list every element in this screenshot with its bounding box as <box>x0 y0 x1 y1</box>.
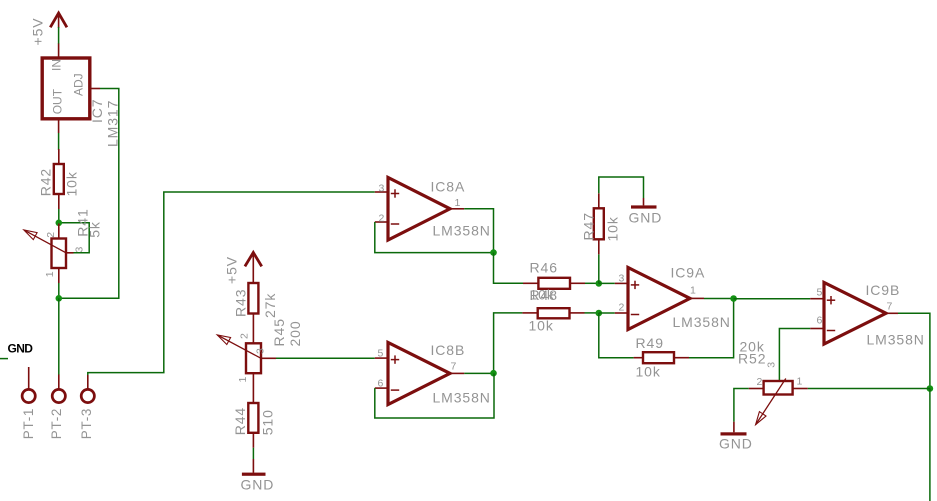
svg-text:GND: GND <box>629 210 663 226</box>
svg-text:2: 2 <box>757 376 763 388</box>
svg-text:10k: 10k <box>63 171 79 196</box>
wire IC9B output to node H <box>898 313 930 388</box>
svg-text:IC7: IC7 <box>89 99 105 124</box>
op-amp IC9B <box>810 282 925 348</box>
supply +5V symbol (top left) <box>30 13 67 46</box>
resistor R47 10k <box>581 193 621 254</box>
svg-text:200: 200 <box>287 320 303 346</box>
resistor R44 510 <box>232 403 276 448</box>
op-amp IC8A <box>375 178 491 241</box>
svg-text:IC8B: IC8B <box>431 342 466 358</box>
svg-text:1: 1 <box>455 197 461 209</box>
svg-text:5: 5 <box>378 348 384 360</box>
wire IC7 ADJ to node below R41 <box>61 89 119 299</box>
svg-text:1: 1 <box>797 376 803 388</box>
node D junction <box>596 280 603 287</box>
resistor R43 27k <box>232 283 278 343</box>
op-amp IC8B <box>375 342 491 406</box>
wire IC8B output to node G <box>464 372 493 374</box>
supply +5V symbol (middle) <box>223 253 261 285</box>
wire R45 wiper to IC8B pin5 <box>276 357 375 359</box>
svg-text:6: 6 <box>817 315 823 327</box>
wire IC8A feedback pin2 <box>375 222 494 253</box>
svg-text:GND: GND <box>8 342 34 356</box>
svg-text:R44: R44 <box>232 407 248 435</box>
pad PT-2 <box>49 375 65 440</box>
pad PT-1 <box>21 367 36 439</box>
wire node F to IC9B pin5 <box>734 298 811 300</box>
svg-text:10k: 10k <box>529 318 554 334</box>
svg-text:LM358N: LM358N <box>433 390 491 406</box>
wire node H to R52 pin1 <box>808 388 930 390</box>
wire R49 to IC9A output node F <box>689 299 734 358</box>
resistor R48 10k <box>522 287 584 334</box>
svg-text:6: 6 <box>378 378 384 390</box>
svg-text:510: 510 <box>260 409 276 435</box>
wire IC7 OUT to R42 <box>58 133 60 150</box>
node B junction <box>56 295 63 302</box>
svg-text:3: 3 <box>619 273 625 285</box>
wire +5V to IC7 IN <box>58 27 60 44</box>
svg-text:GND: GND <box>241 477 275 493</box>
svg-text:R47: R47 <box>581 212 597 240</box>
wire node D to IC9A pin3 <box>599 282 615 284</box>
svg-text:3: 3 <box>379 183 385 195</box>
wire node E to IC9A pin2 <box>599 312 615 314</box>
svg-text:2: 2 <box>238 333 250 339</box>
wire node B down to PT-2 <box>58 298 60 375</box>
wire R52 pin2 to ground <box>734 389 749 422</box>
wire IC9A output to node F <box>704 298 734 300</box>
ground GND (below R52) <box>719 422 753 452</box>
potentiometer R52 20k <box>738 339 808 425</box>
wire node C to R46 <box>494 253 524 284</box>
svg-text:LM358N: LM358N <box>673 314 731 330</box>
svg-text:5k: 5k <box>87 221 103 238</box>
svg-text:ADJ: ADJ <box>72 73 86 96</box>
svg-text:7: 7 <box>887 301 893 313</box>
svg-text:2: 2 <box>379 213 385 225</box>
svg-text:10k: 10k <box>605 216 621 241</box>
svg-text:PT-1: PT-1 <box>21 408 36 439</box>
wire node A to R41 wiper <box>62 223 89 253</box>
svg-text:7: 7 <box>451 361 457 373</box>
svg-text:LM358N: LM358N <box>867 332 925 348</box>
regulator IC7 LM317 <box>42 44 120 148</box>
node H junction <box>927 385 934 392</box>
svg-text:R48: R48 <box>530 287 558 303</box>
svg-text:IC9B: IC9B <box>866 282 901 298</box>
potentiometer R41 5k <box>24 208 103 283</box>
node A junction <box>56 220 63 227</box>
svg-text:2: 2 <box>619 302 625 314</box>
svg-text:3: 3 <box>255 348 267 354</box>
wire R44 to ground <box>252 448 254 459</box>
node C junction <box>490 249 497 256</box>
potentiometer R45 200 <box>217 318 303 403</box>
resistor R49 10k <box>634 335 689 380</box>
svg-text:IN: IN <box>50 59 64 71</box>
wire IC8A output to node C <box>464 209 493 253</box>
svg-text:IC9A: IC9A <box>671 265 706 281</box>
svg-text:1: 1 <box>237 377 249 383</box>
svg-text:+5V: +5V <box>30 18 46 46</box>
pad PT-3 <box>79 375 94 439</box>
wire R42 to node A <box>58 209 60 223</box>
svg-text:OUT: OUT <box>51 88 65 114</box>
wire node H off bottom edge <box>929 389 931 501</box>
wire node D to R47 <box>598 254 600 283</box>
svg-text:GND: GND <box>719 436 753 452</box>
svg-text:3: 3 <box>74 247 86 253</box>
op-amp IC9A <box>615 265 731 331</box>
svg-text:1: 1 <box>690 285 696 297</box>
wire R46 to node D <box>585 282 599 284</box>
node G junction <box>490 370 497 377</box>
resistor R46 10k <box>523 260 585 303</box>
ground GND (right of R47) <box>629 198 663 226</box>
svg-text:R49: R49 <box>636 335 664 351</box>
svg-text:3: 3 <box>765 362 777 368</box>
wire GND stub (left edge) <box>0 358 8 360</box>
svg-text:R52: R52 <box>738 351 766 367</box>
wire node E to R49 <box>599 313 634 358</box>
wire PT-3 to IC8A pin3 <box>88 192 375 375</box>
svg-text:LM358N: LM358N <box>433 223 491 239</box>
wire IC8B feedback pin6 <box>375 373 494 418</box>
wire R47 to ground <box>599 177 644 198</box>
svg-text:PT-2: PT-2 <box>49 408 64 439</box>
svg-text:1: 1 <box>44 271 56 277</box>
svg-text:27k: 27k <box>262 293 278 318</box>
svg-text:R43: R43 <box>232 289 248 317</box>
node E junction <box>596 310 603 317</box>
wire R41 pin1 to node B <box>58 283 60 298</box>
node F junction <box>730 295 737 302</box>
resistor R42 10k <box>37 149 79 209</box>
svg-text:IC8A: IC8A <box>431 179 466 195</box>
wire IC8B output node to R48 <box>494 313 523 373</box>
svg-text:+5V: +5V <box>223 256 239 284</box>
wire IC9B pin6 to R52 wiper <box>779 329 810 382</box>
svg-text:R42: R42 <box>37 168 53 196</box>
wire R48 to node E <box>585 312 599 314</box>
ground GND (below R44) <box>241 459 275 493</box>
svg-text:R45: R45 <box>271 318 287 346</box>
svg-text:R46: R46 <box>530 260 558 276</box>
svg-text:5: 5 <box>817 287 823 299</box>
svg-text:2: 2 <box>45 232 57 238</box>
svg-text:PT-3: PT-3 <box>79 408 94 439</box>
svg-text:10k: 10k <box>636 364 661 380</box>
